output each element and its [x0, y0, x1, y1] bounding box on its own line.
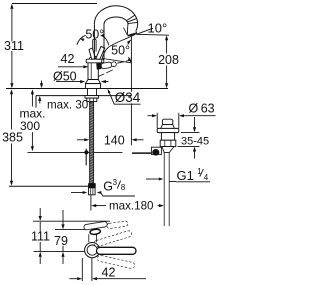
bottom view: base circle	[85, 243, 100, 258]
svg-text:111: 111	[31, 230, 50, 244]
bottom view: aerator	[90, 229, 101, 235]
dim 111	[39, 208, 41, 217]
vertical extension line 140/spout	[130, 35, 132, 92]
svg-text:G1: G1	[177, 168, 194, 183]
pop-up rod horizontal link	[132, 152, 153, 154]
svg-text:35-45: 35-45	[181, 135, 209, 147]
dim 208	[166, 39, 168, 54]
svg-text:10°: 10°	[148, 20, 168, 35]
pop-up waste pipe	[163, 153, 165, 226]
spray axis curve	[101, 35, 135, 64]
pop-up waste flange	[157, 128, 179, 132]
pull rod	[92, 40, 94, 52]
svg-text:Ø 63: Ø 63	[189, 101, 215, 115]
bottom reference line	[9, 185, 89, 187]
svg-text:50°: 50°	[111, 44, 130, 58]
lever position left	[89, 48, 96, 59]
svg-text:311: 311	[4, 39, 24, 53]
mounting washer	[85, 96, 99, 99]
dim 311	[12, 3, 97, 5]
dim 79	[62, 210, 64, 226]
svg-text:300: 300	[20, 119, 40, 133]
dim max30	[41, 81, 43, 85]
bottom view: spout end	[84, 221, 108, 230]
shank through counter	[88, 89, 97, 96]
hose end fitting	[89, 188, 96, 195]
bottom view: top extension line	[33, 220, 110, 222]
max300 reference line / pop-up rod line	[28, 151, 123, 153]
spray head grip bands	[126, 15, 134, 21]
dim max180	[90, 195, 92, 211]
svg-text:42: 42	[61, 52, 75, 66]
svg-text:3: 3	[113, 178, 118, 187]
bottom view: dashed lever up	[93, 230, 132, 247]
bottom view: lever axis line	[34, 251, 85, 253]
counter top line	[6, 88, 168, 90]
svg-text:1: 1	[197, 167, 202, 176]
dashed pulled-out spray head	[101, 62, 112, 69]
dashed spray dark outlet	[96, 63, 101, 70]
dim 140	[77, 139, 86, 141]
bottom view: lever	[97, 247, 137, 254]
svg-text:42: 42	[102, 265, 116, 279]
dim max300	[31, 91, 33, 107]
pop-up waste plug	[162, 119, 172, 124]
svg-text:Ø34: Ø34	[115, 90, 141, 105]
spout arc inner	[104, 17, 128, 26]
mounting nut	[87, 98, 97, 102]
svg-text:max. 30: max. 30	[47, 99, 88, 112]
pop-up waste body	[161, 133, 174, 141]
counter bottom line	[36, 95, 132, 97]
pop-up waste taper	[162, 147, 174, 153]
svg-text:79: 79	[54, 234, 68, 248]
spout riser tube	[93, 24, 95, 59]
pop-up waste nut	[160, 140, 176, 146]
svg-text:208: 208	[158, 53, 179, 67]
faucet body	[88, 62, 98, 81]
lever dome	[89, 56, 100, 59]
hose end cap	[88, 183, 96, 188]
dim 385	[11, 91, 13, 130]
lever position right	[96, 46, 105, 59]
body base flare	[86, 80, 101, 84]
pop-up waste side inlet	[151, 147, 161, 154]
pulled-out spray axis line	[103, 59, 131, 63]
bottom view: dashed lever down	[97, 255, 135, 269]
10 deg reference lines	[136, 33, 169, 36]
dashed spray hose dashes	[106, 70, 113, 73]
svg-text:max.180: max.180	[109, 200, 153, 213]
body top cap	[86, 59, 104, 63]
supply hose	[90, 102, 94, 184]
svg-text:8: 8	[121, 183, 126, 192]
spray head outlet	[124, 28, 128, 35]
label G3/8	[71, 192, 83, 194]
svg-text:4: 4	[204, 173, 209, 182]
pop-up rod joint	[85, 149, 87, 166]
bottom view: dashed spout swung	[107, 221, 129, 229]
spout arc outer	[94, 6, 137, 31]
bottom view: neck	[88, 234, 90, 242]
label G1 1/4	[146, 178, 159, 180]
svg-text:G: G	[103, 180, 113, 194]
svg-text:140: 140	[104, 133, 125, 147]
body base	[86, 84, 101, 89]
dim 42 bottom	[81, 258, 83, 281]
dim 35-45	[181, 131, 200, 133]
